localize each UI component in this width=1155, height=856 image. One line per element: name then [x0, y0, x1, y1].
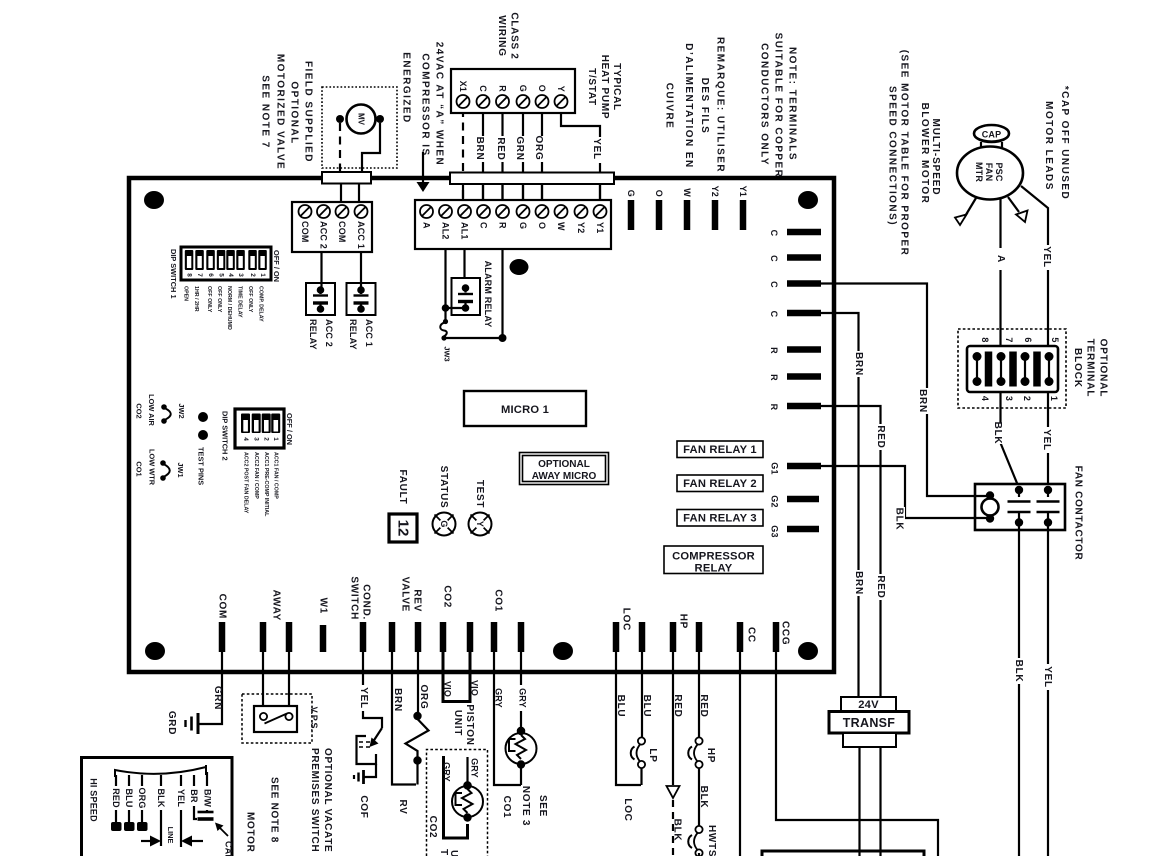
svg-text:BRN: BRN	[474, 137, 485, 161]
wire G1 to contactor coil (BLK)	[821, 466, 986, 518]
svg-text:ACC 1: ACC 1	[356, 221, 366, 249]
svg-text:CONDUCTORS ONLY: CONDUCTORS ONLY	[759, 43, 770, 166]
svg-text:OFF ONLY: OFF ONLY	[206, 286, 212, 313]
svg-text:1: 1	[272, 437, 279, 441]
svg-text:FAN RELAY 2: FAN RELAY 2	[683, 478, 757, 490]
svg-text:CO2: CO2	[427, 816, 438, 839]
wire transformer secondary right	[879, 747, 881, 856]
transformer 24V TRANSF	[841, 697, 896, 712]
svg-text:NOTE: TERMINALS: NOTE: TERMINALS	[787, 47, 798, 161]
svg-text:1: 1	[259, 273, 266, 277]
svg-text:Y: Y	[556, 86, 566, 92]
svg-text:BLOWER MOTOR: BLOWER MOTOR	[919, 103, 930, 205]
svg-text:ALARM RELAY: ALARM RELAY	[483, 261, 493, 328]
board bottom pads CO1	[491, 622, 498, 652]
lead RED (capped)	[115, 775, 117, 786]
svg-text:CLASS 2: CLASS 2	[509, 12, 520, 59]
board edge pad Y2	[712, 200, 719, 230]
svg-text:3: 3	[253, 437, 260, 441]
svg-text:GRD: GRD	[166, 711, 177, 735]
fan contactor box	[975, 484, 1065, 530]
wire MV left lead dashed	[339, 123, 341, 172]
wire connector A to ACC strip	[358, 183, 360, 202]
VPS switch blade	[265, 714, 288, 724]
svg-text:VIO: VIO	[443, 681, 453, 697]
pointer to CAP	[217, 825, 228, 836]
terminal block bar	[985, 352, 993, 387]
motor capacitor CAP	[974, 125, 1009, 142]
svg-text:BLU: BLU	[641, 695, 652, 718]
high water temp switch HWTS	[695, 826, 702, 833]
svg-text:ACC 1: ACC 1	[364, 319, 374, 347]
svg-text:RED: RED	[698, 694, 709, 717]
wire label YEL	[590, 137, 602, 163]
svg-text:C: C	[479, 222, 489, 229]
svg-text:O: O	[537, 222, 547, 229]
svg-text:GRY: GRY	[442, 762, 452, 782]
board bottom pads HP	[670, 622, 677, 652]
wire ACC2 terminal to ACC2 relay	[320, 252, 322, 290]
svg-text:VIO: VIO	[470, 680, 480, 696]
svg-text:NOTE 3: NOTE 3	[520, 786, 531, 826]
svg-text:YEL: YEL	[1041, 429, 1052, 451]
svg-text:24V: 24V	[858, 699, 879, 711]
VPS switch box	[254, 706, 297, 732]
svg-text:BLK: BLK	[992, 422, 1003, 445]
svg-text:LP: LP	[647, 748, 658, 762]
svg-text:JW2: JW2	[177, 403, 186, 418]
terminal block pin 8-4	[973, 352, 982, 361]
wire CO1 pad left (GRY)	[494, 652, 521, 785]
lead B/W to capacitor	[206, 772, 208, 786]
board bottom pad CC	[737, 622, 744, 652]
wire tstat G to board G	[522, 109, 524, 200]
micro U1 MICRO 1	[464, 391, 586, 426]
svg-text:3: 3	[1004, 396, 1014, 401]
alarm relay	[452, 278, 481, 315]
svg-text:RV: RV	[397, 799, 408, 814]
svg-text:BLU: BLU	[615, 695, 626, 718]
svg-text:*CAP OFF UNUSED: *CAP OFF UNUSED	[1059, 86, 1070, 200]
svg-text:RELAY: RELAY	[348, 319, 358, 350]
board edge pad O	[656, 200, 663, 230]
DIP SWITCH 2	[235, 409, 284, 448]
wire bundle arc	[115, 765, 206, 777]
svg-text:SEE: SEE	[537, 795, 548, 817]
svg-text:CCG: CCG	[780, 621, 791, 645]
svg-text:BRN: BRN	[392, 688, 403, 712]
svg-text:24VAC AT “A” WHEN: 24VAC AT “A” WHEN	[434, 42, 445, 166]
board bottom pad COND SWITCH	[360, 622, 367, 652]
svg-text:MOTORIZED VALVE: MOTORIZED VALVE	[275, 54, 286, 170]
svg-text:2: 2	[249, 273, 256, 277]
svg-text:C: C	[769, 230, 779, 237]
svg-text:(SEE MOTOR TABLE FOR PROPER: (SEE MOTOR TABLE FOR PROPER	[899, 50, 910, 257]
compressor section box (cut off at page bottom)	[762, 851, 924, 856]
motor run capacitor	[198, 811, 214, 814]
svg-text:YEL: YEL	[1042, 666, 1053, 688]
svg-text:12: 12	[395, 520, 412, 537]
svg-text:A: A	[995, 255, 1006, 263]
wire R3 to transformer (RED)	[821, 406, 881, 697]
svg-text:O: O	[654, 190, 664, 197]
wire COM to ground (GRN)	[198, 652, 222, 724]
svg-text:3: 3	[237, 273, 244, 277]
svg-text:4: 4	[227, 273, 234, 277]
svg-text:D’ALIMENTATION EN: D’ALIMENTATION EN	[683, 43, 694, 168]
cap leads	[980, 142, 982, 148]
board edge pad G	[628, 200, 635, 230]
svg-text:MOTOR SP: MOTOR SP	[245, 812, 256, 856]
svg-text:REV: REV	[412, 589, 423, 612]
svg-text:G: G	[626, 190, 636, 197]
svg-text:V.P.S.: V.P.S.	[309, 707, 319, 732]
svg-text:CO1: CO1	[493, 589, 504, 612]
svg-text:RELAY: RELAY	[695, 563, 733, 575]
RV solenoid coil	[413, 712, 421, 720]
optional terminal block body	[967, 346, 1058, 392]
motor lead 1 (capped)	[964, 198, 976, 218]
svg-text:PISTON: PISTON	[464, 704, 475, 745]
test LED Y	[469, 513, 492, 536]
svg-text:HEAT PUMP: HEAT PUMP	[599, 55, 610, 119]
svg-text:Y1: Y1	[595, 222, 605, 233]
svg-text:DIP SWITCH 2: DIP SWITCH 2	[221, 411, 230, 461]
lead ORG (capped)	[141, 775, 143, 786]
svg-text:BLU: BLU	[124, 788, 134, 807]
board right edge pad G1	[787, 463, 821, 470]
svg-text:BLOCK: BLOCK	[1072, 348, 1083, 388]
COMPRESSOR RELAY	[664, 546, 763, 574]
svg-text:SEE NOTE 7: SEE NOTE 7	[260, 75, 271, 148]
svg-text:ORG: ORG	[137, 787, 147, 808]
wires AWAY to VPS switch	[262, 652, 264, 714]
wire A lead diagonal to contactor	[1001, 443, 1020, 488]
wire COND SWITCH to COF (YEL)	[363, 652, 382, 728]
wire BLK dashed to page bottom	[672, 800, 674, 856]
svg-text:CAP: CAP	[224, 841, 234, 856]
board bottom pads CO2	[440, 622, 447, 652]
low pressure switch LP	[638, 737, 645, 744]
svg-text:MULTI-SPEED: MULTI-SPEED	[930, 119, 941, 196]
svg-text:C: C	[769, 255, 779, 262]
svg-text:SPEED CONNECTIONS): SPEED CONNECTIONS)	[887, 86, 898, 226]
wire AL1 to alarm relay	[463, 249, 465, 288]
svg-text:COM: COM	[217, 594, 228, 619]
mounting hole bottom-left	[145, 642, 165, 660]
wires CO2 pads to piston unit (VIO)	[443, 652, 470, 702]
wire tstat X1 to AL1 (dashed)	[462, 109, 464, 200]
svg-text:COND.: COND.	[361, 584, 372, 620]
svg-text:SWITCH: SWITCH	[349, 576, 360, 620]
svg-text:G: G	[439, 520, 449, 527]
board right edge pad C4	[787, 310, 821, 317]
wire label GRN	[513, 136, 525, 162]
svg-text:OPTIONAL: OPTIONAL	[289, 81, 300, 144]
svg-text:6: 6	[1023, 337, 1033, 342]
svg-text:LOW WTR: LOW WTR	[148, 449, 157, 486]
lead BR to capacitor	[193, 775, 195, 786]
mounting hole top-right	[798, 191, 818, 209]
svg-text:OFF / ON: OFF / ON	[285, 413, 294, 445]
svg-text:HP: HP	[678, 614, 689, 629]
svg-text:BLK: BLK	[1013, 660, 1024, 683]
control board outline	[129, 178, 834, 672]
svg-text:PREMISES SWITCH: PREMISES SWITCH	[309, 748, 320, 852]
svg-text:GRY: GRY	[470, 758, 480, 778]
svg-text:YEL: YEL	[1041, 246, 1052, 268]
svg-text:ORG: ORG	[418, 685, 429, 710]
wire COF to ground	[364, 764, 376, 777]
wire tstat R to board R	[501, 109, 503, 200]
board right edge pad R2	[787, 373, 821, 380]
MV terminal dots	[336, 115, 344, 123]
svg-text:GRY: GRY	[494, 688, 504, 708]
wire label RED	[494, 136, 506, 162]
board bottom pads REV VALVE	[389, 622, 396, 652]
wire HP 1 (RED) to plug	[672, 652, 674, 785]
board bottom pad COM	[219, 622, 226, 652]
FAN RELAY 2	[677, 475, 763, 492]
svg-text:CO1: CO1	[135, 461, 144, 476]
terminal block pin 6-2	[1021, 352, 1030, 361]
board right edge pad R1	[787, 346, 821, 353]
terminal block pin 5-1	[1045, 352, 1054, 361]
board right edge pad C2	[787, 254, 821, 261]
mounting hole bottom-right	[798, 642, 818, 660]
test pins	[198, 412, 208, 422]
FAN RELAY 3	[677, 510, 763, 527]
svg-text:FAN CONTACTOR: FAN CONTACTOR	[1073, 466, 1084, 561]
svg-text:HI SPEED: HI SPEED	[89, 778, 99, 822]
motor lead 3 (capped)	[1008, 197, 1019, 212]
mounting hole top-left	[144, 191, 164, 209]
svg-text:HP: HP	[705, 748, 716, 763]
svg-text:TEST PINS: TEST PINS	[197, 447, 206, 485]
svg-text:SUITABLE FOR COPPER: SUITABLE FOR COPPER	[773, 33, 784, 179]
svg-text:HWTS: HWTS	[706, 825, 717, 856]
svg-text:FIELD SUPPLIED: FIELD SUPPLIED	[303, 61, 314, 163]
svg-text:OFF / ON: OFF / ON	[272, 250, 281, 282]
svg-text:GRN: GRN	[212, 686, 223, 710]
board bottom pads LOC	[613, 622, 620, 652]
ground at COF	[362, 770, 365, 784]
svg-text:LOC: LOC	[622, 798, 633, 821]
CO1 freeze sensor	[517, 727, 525, 735]
svg-text:W1: W1	[318, 598, 329, 614]
svg-text:8: 8	[186, 273, 193, 277]
svg-text:MTR: MTR	[974, 162, 984, 182]
fan contactor contact 2	[1044, 486, 1052, 494]
svg-text:ENERGIZED: ENERGIZED	[401, 52, 412, 123]
svg-text:YEL: YEL	[358, 687, 369, 709]
VPS dashed enclosure	[242, 694, 312, 743]
svg-text:ORG: ORG	[533, 136, 544, 161]
svg-text:TIME DELAY: TIME DELAY	[237, 286, 243, 318]
svg-text:OPTIONAL VACATE: OPTIONAL VACATE	[322, 748, 333, 852]
wire LOC 1 (BLU)	[616, 652, 641, 785]
svg-text:1HR / 2HR: 1HR / 2HR	[193, 286, 199, 312]
svg-text:REMARQUE: UTILISER: REMARQUE: UTILISER	[715, 37, 726, 173]
wire tstat Y to board Y1	[561, 109, 600, 200]
lead BLU (capped)	[128, 775, 130, 786]
motorized valve MV body	[347, 105, 376, 134]
svg-text:CO1: CO1	[501, 796, 512, 819]
status LED G	[433, 513, 456, 536]
wire LOC 2 (BLU)	[641, 652, 643, 738]
svg-text:O: O	[537, 85, 547, 92]
svg-text:VALVE: VALVE	[400, 577, 411, 612]
wire contactor output YEL	[1047, 524, 1049, 856]
svg-text:YEL: YEL	[176, 789, 186, 807]
svg-text:5: 5	[1050, 337, 1060, 342]
board edge pad W	[684, 200, 691, 230]
svg-text:DIP SWITCH 1: DIP SWITCH 1	[169, 249, 178, 299]
FAN RELAY 1	[677, 441, 763, 458]
board low-voltage terminal strip	[415, 200, 611, 249]
jumper JW2	[161, 404, 167, 410]
arrow pointing at terminal A position	[422, 152, 424, 182]
svg-text:COMP. DELAY: COMP. DELAY	[258, 286, 264, 322]
svg-text:ACC 2: ACC 2	[319, 221, 329, 249]
svg-text:RELAY: RELAY	[308, 319, 318, 350]
svg-text:COF: COF	[358, 795, 369, 818]
svg-text:BLK: BLK	[894, 508, 905, 531]
wire REV VALVE 1 (BRN)	[392, 652, 416, 785]
connector B on board edge	[450, 173, 614, 185]
svg-text:JW3: JW3	[443, 346, 452, 361]
board bottom pads AWAY	[260, 622, 267, 652]
svg-text:2: 2	[1022, 396, 1032, 401]
CO2 freeze sensor	[444, 756, 468, 838]
svg-text:OPEN: OPEN	[183, 286, 189, 301]
svg-text:CO2: CO2	[135, 403, 144, 418]
svg-text:RED: RED	[672, 694, 683, 717]
svg-text:MV: MV	[357, 113, 366, 126]
wire alarm relay to AL2	[446, 307, 466, 309]
CO2 sensor dashed enclosure	[427, 750, 488, 856]
svg-text:GRY: GRY	[518, 688, 528, 708]
svg-text:R: R	[498, 222, 508, 229]
svg-text:ACC1 FAN / COMP: ACC1 FAN / COMP	[273, 452, 279, 499]
wire label YEL mid	[1041, 427, 1054, 453]
svg-text:TEST: TEST	[474, 480, 485, 508]
svg-text:C: C	[769, 281, 779, 288]
board right edge pad C3	[787, 280, 821, 287]
mounting hole bottom-mid	[553, 642, 573, 660]
wire C4 to transformer (BRN)	[821, 313, 859, 697]
svg-text:W: W	[556, 222, 566, 231]
svg-text:R: R	[769, 404, 779, 411]
svg-text:AWAY MICRO: AWAY MICRO	[532, 471, 597, 482]
svg-text:C: C	[769, 311, 779, 318]
ACC terminal strip	[292, 202, 372, 252]
svg-text:DES FILS: DES FILS	[699, 78, 710, 135]
svg-text:TERMINAL: TERMINAL	[1085, 339, 1096, 398]
svg-text:RED: RED	[111, 788, 121, 808]
svg-text:T’STAT: T’STAT	[438, 849, 449, 856]
wire CCG to page bottom	[776, 652, 938, 856]
svg-text:A: A	[422, 222, 432, 229]
svg-text:AL2: AL2	[441, 222, 451, 240]
svg-text:Y2: Y2	[576, 222, 586, 233]
via dot near alarm relay	[510, 259, 529, 275]
wire label BRN	[473, 136, 485, 162]
lead BLK to line	[160, 775, 162, 786]
fault display 12	[389, 514, 417, 542]
svg-text:RED: RED	[875, 425, 886, 448]
chassis ground GRD	[197, 713, 200, 734]
svg-text:BLK: BLK	[672, 819, 683, 842]
svg-text:MOTOR LEADS: MOTOR LEADS	[1043, 101, 1054, 191]
svg-text:SEE NOTE 8: SEE NOTE 8	[269, 777, 280, 843]
svg-text:C: C	[478, 85, 488, 92]
svg-text:PSC: PSC	[994, 162, 1004, 181]
board right edge pad R3	[787, 403, 821, 410]
svg-text:Y1: Y1	[738, 186, 748, 197]
wire label ORG	[532, 136, 544, 162]
wire C3 to contactor coil (BRN)	[821, 284, 986, 497]
wire HP 2 (RED)	[698, 652, 700, 738]
svg-text:OPTIONAL: OPTIONAL	[538, 459, 590, 470]
svg-text:R: R	[769, 347, 779, 354]
svg-text:WIRING: WIRING	[496, 15, 507, 56]
high pressure switch HP	[695, 737, 702, 744]
svg-text:U1: U1	[448, 850, 459, 856]
svg-text:YEL: YEL	[591, 138, 602, 160]
wire JW3 to R	[444, 249, 503, 338]
svg-text:X1: X1	[458, 81, 468, 92]
wire connector A to ACC strip	[340, 183, 342, 202]
svg-text:JW1: JW1	[176, 462, 185, 477]
wire CC to page bottom	[739, 652, 741, 856]
wire MV right lead	[362, 123, 380, 172]
svg-text:FAULT: FAULT	[397, 470, 408, 505]
svg-text:OFF ONLY: OFF ONLY	[247, 286, 253, 313]
svg-text:UNIT: UNIT	[452, 710, 463, 736]
svg-text:AL1: AL1	[460, 222, 470, 240]
svg-text:CC: CC	[746, 627, 757, 643]
svg-text:BRN: BRN	[853, 571, 864, 595]
fan contactor contact 1	[1015, 486, 1023, 494]
lead YEL to line	[180, 775, 182, 786]
svg-text:COM: COM	[300, 221, 310, 243]
svg-text:G2: G2	[770, 495, 780, 507]
wire contactor output BLK	[1018, 524, 1020, 856]
svg-text:BLK: BLK	[156, 788, 166, 807]
board bottom pad CCG	[773, 622, 780, 652]
relay ACC 2	[306, 283, 335, 315]
terminal block pin 7-3	[997, 352, 1006, 361]
svg-text:OFF ONLY: OFF ONLY	[216, 286, 222, 313]
svg-text:4: 4	[980, 396, 990, 401]
svg-text:ACC1 PRE-COMP INITIAL: ACC1 PRE-COMP INITIAL	[263, 452, 269, 517]
svg-text:GRN: GRN	[514, 136, 525, 160]
board bottom pad W1	[320, 625, 327, 652]
svg-text:8: 8	[980, 337, 990, 342]
terminal block bar	[1009, 352, 1017, 387]
svg-text:CAP: CAP	[982, 130, 1002, 140]
svg-text:G: G	[518, 222, 528, 229]
wires connector B to board strip	[462, 184, 464, 200]
svg-text:CO2: CO2	[442, 585, 453, 608]
svg-text:STATUS: STATUS	[438, 466, 449, 509]
svg-text:7: 7	[196, 273, 203, 277]
svg-text:1: 1	[1049, 396, 1059, 401]
optional terminal block dashed enclosure	[958, 329, 1066, 408]
svg-text:7: 7	[1004, 337, 1014, 342]
jumper JW3	[443, 319, 448, 324]
